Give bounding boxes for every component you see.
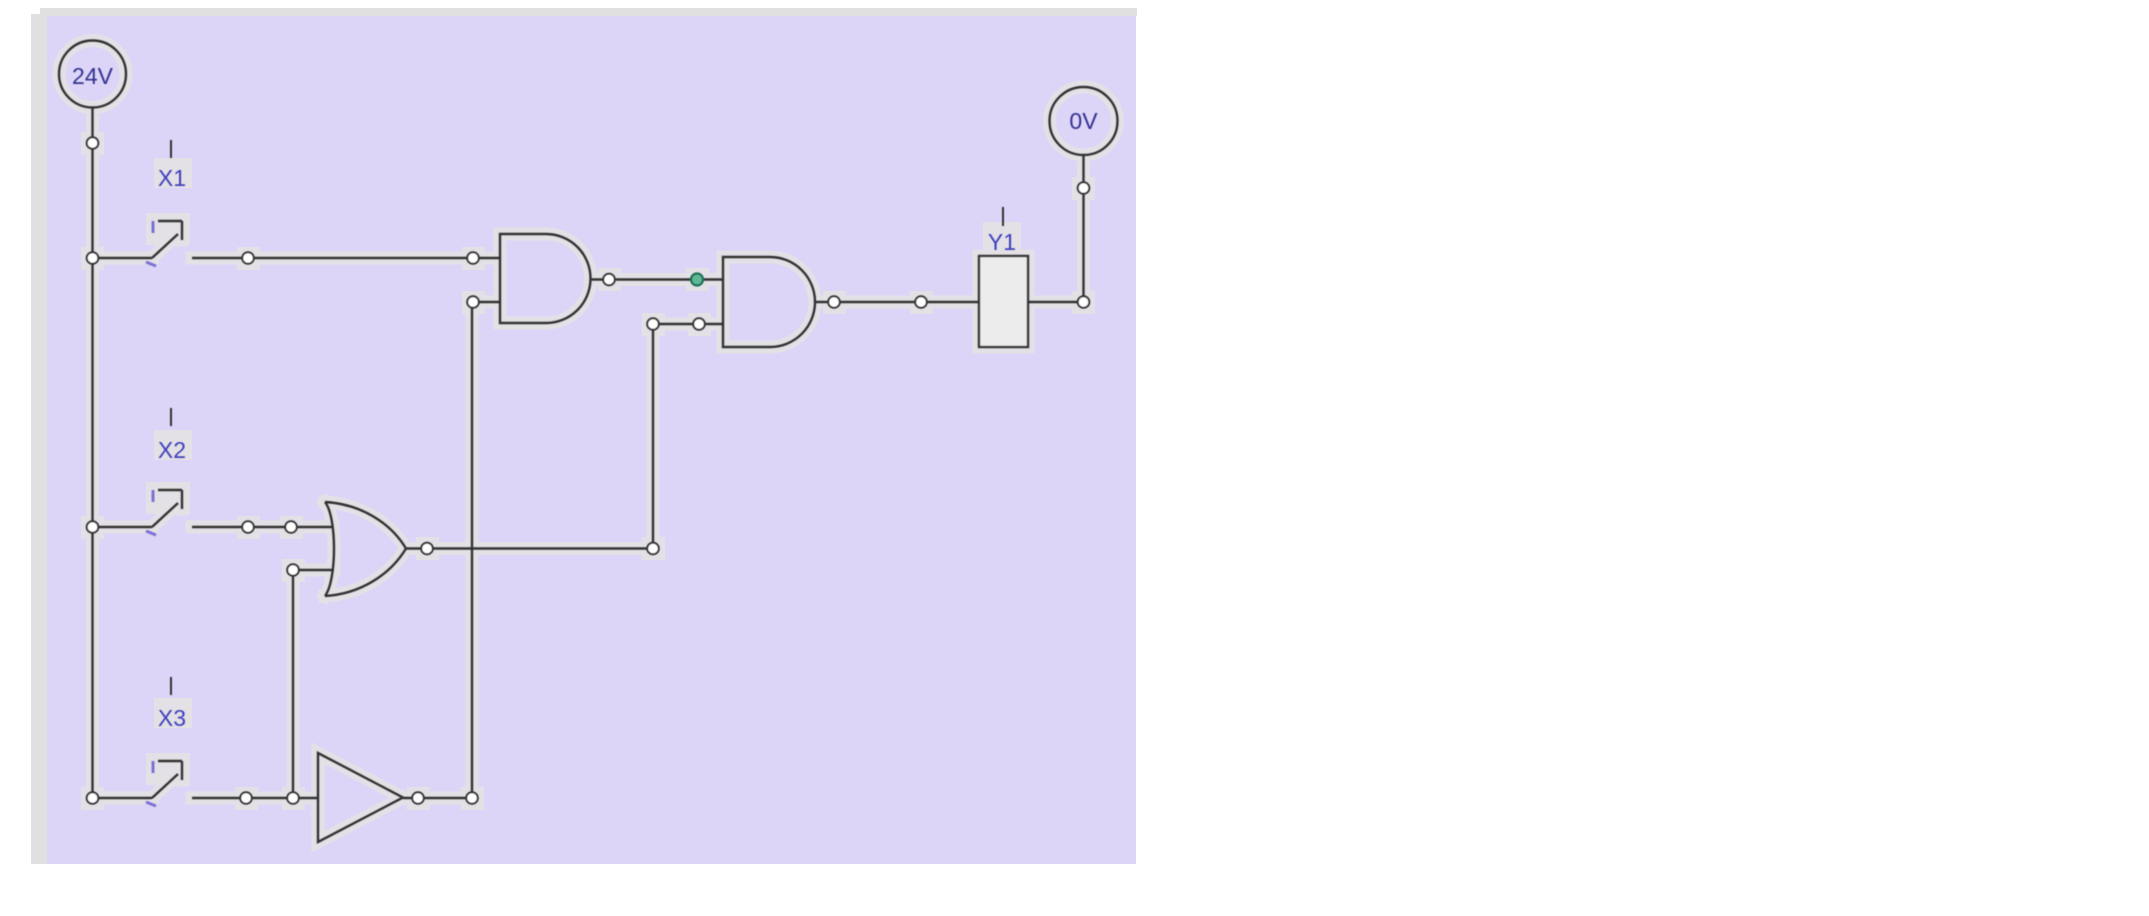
node buffer corner: [466, 792, 478, 804]
wire Y1 to 0V: [1028, 155, 1084, 302]
node AND2 in1 pin (active, green): [691, 274, 703, 286]
wire X1 to AND1: [192, 257, 500, 259]
wire X3 to buffer: [192, 797, 318, 799]
node X1 wire: [242, 252, 254, 264]
switch X3: [93, 761, 183, 798]
node X3 branch: [287, 792, 299, 804]
node OR1 out pin: [421, 543, 433, 555]
switch blue accents: [146, 221, 156, 806]
AND gate U2: [723, 257, 815, 347]
wire OR1 out to AND2 in2: [406, 324, 723, 549]
coil Y1: [979, 256, 1028, 347]
label tick X2: [170, 408, 172, 426]
node X3 wire: [240, 792, 252, 804]
schematic canvas background: [47, 16, 1136, 864]
node OR1 in1 pin: [285, 521, 297, 533]
switch X2: [93, 490, 183, 527]
node AND1 in1 pin: [467, 252, 479, 264]
node 0V wire: [1078, 182, 1090, 194]
svg-text:Y1: Y1: [988, 229, 1016, 255]
wire: bus from 24V down: [91, 108, 93, 798]
AND gate U1: [500, 234, 591, 323]
node bus X1: [87, 252, 99, 264]
wire AND2 out to coil Y1: [815, 301, 979, 303]
node buffer out pin: [412, 792, 424, 804]
labels: [158, 165, 1016, 731]
node AND2 in2 pin: [693, 318, 705, 330]
svg-text:X3: X3: [158, 705, 186, 731]
node bus below 24V: [87, 137, 99, 149]
node AND1 out pin: [603, 274, 615, 286]
node OR1 in2 pin: [287, 564, 299, 576]
connection nodes: [87, 137, 1090, 804]
label tick X1: [170, 140, 172, 158]
wire buffer out up to AND1 in2: [403, 302, 500, 798]
node AND2 out pin: [828, 296, 840, 308]
canvas left gray strip: [31, 14, 47, 864]
switch X1: [93, 221, 183, 258]
24V supply V1: [59, 41, 126, 108]
node bus X2: [87, 521, 99, 533]
0V supply V2: [1050, 87, 1118, 155]
node Y1 wire: [915, 296, 927, 308]
svg-text:X2: X2: [158, 437, 186, 463]
node X2 wire: [242, 521, 254, 533]
svg-text:24V: 24V: [72, 63, 114, 89]
node OR1 corner low: [647, 543, 659, 555]
node bus X3: [87, 792, 99, 804]
OR gate U3: [325, 502, 406, 596]
label tick X3: [170, 677, 172, 695]
canvas top gray strip: [40, 8, 1137, 16]
wire X2 to OR1: [192, 526, 333, 528]
node AND1 in2 pin: [467, 296, 479, 308]
svg-text:0V: 0V: [1069, 108, 1098, 134]
node OR1 corner high: [647, 318, 659, 330]
wire AND1 out to AND2 in: [591, 278, 724, 280]
node Y1-0V corner: [1078, 296, 1090, 308]
wire X3 branch up to OR1 in2: [293, 570, 334, 798]
label tick Y1: [1002, 207, 1004, 226]
buffer U4: [318, 753, 403, 842]
svg-text:X1: X1: [158, 165, 186, 191]
